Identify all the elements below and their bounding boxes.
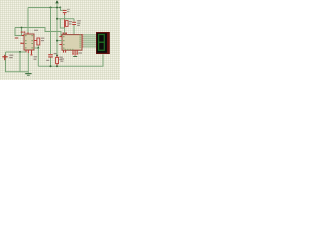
text C3 label xyxy=(54,53,57,54)
R2 leads xyxy=(56,56,58,58)
power symbol xyxy=(55,0,58,3)
wire oscillator right leg top xyxy=(73,19,75,22)
wire across to U2 xyxy=(15,28,61,37)
text below U2 left xyxy=(60,58,64,59)
wire left drop to U1 top xyxy=(27,8,29,34)
wire node down to bus xyxy=(37,48,39,66)
text C2 label xyxy=(77,20,81,21)
crystal X1 xyxy=(64,19,66,27)
node dot osc xyxy=(56,18,58,20)
text near U2 bottom right xyxy=(78,52,82,53)
node dot xyxy=(19,51,21,53)
U1 pin numbers xyxy=(25,35,33,48)
capacitor C2 xyxy=(72,22,76,25)
wire U1 pin1 feed xyxy=(21,28,23,36)
text button label xyxy=(9,55,13,56)
resistor R1 xyxy=(37,38,40,45)
U2 right pins to display xyxy=(82,35,83,47)
wire left loop xyxy=(6,52,29,72)
wire oscillator top xyxy=(57,18,74,20)
7-segment display xyxy=(96,32,110,54)
text net label xyxy=(34,30,38,31)
wire R1 bottom xyxy=(37,45,39,48)
text R1 label xyxy=(41,38,44,39)
U1 pin top xyxy=(27,32,29,34)
U2 bottom pins xyxy=(64,50,78,55)
U1 pin left 1 xyxy=(22,35,25,37)
text left of bus xyxy=(46,60,49,61)
text U2 label xyxy=(63,33,65,35)
wire y52 xyxy=(6,51,27,53)
IC U2 xyxy=(62,35,82,51)
U2 pin numbers xyxy=(63,35,81,51)
wire U1 pin to node xyxy=(34,47,38,49)
wire x20 down xyxy=(19,52,21,72)
ground xyxy=(25,53,31,76)
node dot xyxy=(56,40,58,42)
capacitor C3 xyxy=(48,54,53,57)
U2 pin left 1 xyxy=(59,36,62,38)
U1 pin left 2 xyxy=(21,42,24,44)
ground small xyxy=(73,56,77,57)
wire oscillator left leg xyxy=(60,19,64,35)
IC U1 xyxy=(24,34,34,50)
wire U2 left connect xyxy=(57,40,62,42)
button xyxy=(2,55,7,60)
node dot corner xyxy=(59,7,61,9)
text U1 label xyxy=(21,31,23,33)
node dot xyxy=(21,27,23,29)
text R2 label xyxy=(59,57,62,58)
wire U1 left loop xyxy=(15,28,22,36)
wire main vertical rail xyxy=(56,3,58,67)
U1 pin right 1 xyxy=(34,40,37,42)
U2 pin left 2 xyxy=(59,44,62,46)
wire rail x50 xyxy=(50,8,52,55)
capacitor C1 xyxy=(63,9,70,19)
wire bottom bus xyxy=(38,54,103,66)
node dots on bus xyxy=(50,65,52,67)
U1 pin bottom 1 xyxy=(25,50,27,52)
text net label red xyxy=(15,37,18,38)
wire under C3 xyxy=(50,58,52,67)
node dot R2 top xyxy=(56,55,58,57)
wire oscillator right leg bottom xyxy=(73,25,75,35)
resistor R2 xyxy=(56,57,59,63)
U1 pin bottom 3 xyxy=(31,50,33,54)
wire top rail xyxy=(28,7,61,9)
U1 pin bottom 2 xyxy=(27,50,29,53)
node dot xyxy=(37,47,39,49)
no-connect marks xyxy=(72,53,74,54)
text below U1 xyxy=(34,56,38,57)
text crystal label xyxy=(69,21,72,22)
wire jog to C1 xyxy=(61,8,65,11)
node dots on top rail xyxy=(50,7,52,9)
